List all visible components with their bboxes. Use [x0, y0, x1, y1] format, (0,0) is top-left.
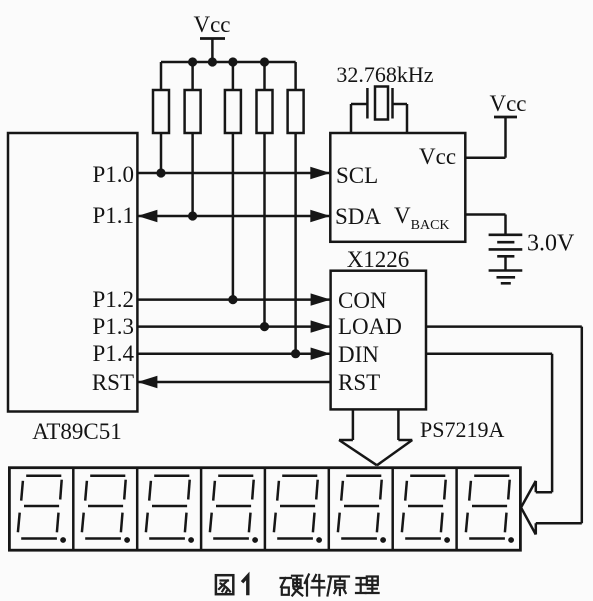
arrow into SDA: [310, 210, 330, 222]
junction dot bus/R2: [188, 57, 197, 66]
arrow into SCL: [310, 167, 330, 179]
svg-text:Vcc: Vcc: [419, 144, 456, 169]
wire R4 to LOAD net: [263, 133, 266, 327]
caption 图1 硬件原理: [216, 575, 379, 596]
resistor R4: [257, 90, 273, 133]
wire P1.2 to CON: [137, 298, 330, 301]
glyph 件: [305, 575, 325, 596]
wire P1.3 to LOAD: [137, 325, 330, 328]
glyph 原: [328, 577, 350, 596]
7-segment digit 2: [82, 476, 130, 543]
svg-text:LOAD: LOAD: [338, 314, 402, 339]
7-segment digit 7: [402, 476, 450, 543]
resistor R5: [288, 90, 304, 133]
svg-text:VBACK: VBACK: [394, 203, 450, 233]
wire P1.0 to SCL: [137, 172, 330, 175]
glyph 图: [216, 575, 233, 594]
arrow (open) into display right edge: [521, 481, 536, 535]
wire R5 to DIN net: [294, 133, 297, 354]
battery BT1 3.0V: [489, 231, 575, 257]
arrow into P1.1: [137, 210, 157, 222]
svg-text:CON: CON: [338, 288, 387, 313]
svg-text:P1.0: P1.0: [92, 162, 134, 187]
svg-text:DIN: DIN: [338, 342, 379, 367]
wire R1 to SCL net: [160, 133, 163, 173]
glyph 1: [243, 576, 248, 594]
arrow into CON: [311, 293, 331, 305]
glyph 理: [356, 577, 379, 594]
resistor R1: [153, 90, 169, 133]
wire RST net: [137, 381, 330, 384]
svg-text:Vcc: Vcc: [489, 91, 526, 116]
IC U3 PS7219A: [331, 271, 505, 442]
svg-text:P1.3: P1.3: [92, 314, 134, 339]
junction dot bus/R3: [228, 57, 237, 66]
ground: [489, 271, 523, 284]
wire battery to ground: [504, 256, 507, 270]
junction dot P1.0/R1: [156, 168, 165, 177]
junction dot bus/R4: [260, 57, 269, 66]
IC U1 AT89C51: [8, 133, 137, 444]
wire VBACK to battery: [465, 215, 505, 235]
wire R3 to CON net: [232, 133, 235, 300]
svg-text:SDA: SDA: [335, 204, 381, 229]
7-segment digit 8: [466, 476, 514, 543]
junction dot CON/R3: [228, 295, 237, 304]
wire DIN to display (right loop): [426, 354, 552, 493]
crystal Y1 32.768kHz: [336, 62, 433, 133]
7-segment digit 5: [274, 476, 322, 543]
junction dot LOAD/R4: [260, 322, 269, 331]
svg-text:PS7219A: PS7219A: [420, 417, 504, 442]
7-segment digit 6: [338, 476, 386, 543]
wire P1.1 to SDA: [137, 215, 330, 218]
arrow into RST (AT89C51): [137, 376, 157, 388]
svg-text:P1.4: P1.4: [92, 341, 134, 366]
power Vcc (top): [193, 12, 230, 62]
arrow into LOAD: [311, 320, 331, 332]
wire LOAD to display (right loop): [426, 327, 582, 535]
resistor R2: [185, 90, 201, 133]
junction dot DIN/R5: [291, 349, 300, 358]
resistor R3: [225, 90, 241, 133]
wire P1.4 to DIN: [137, 352, 330, 355]
glyph 硬: [281, 576, 303, 596]
svg-text:Vcc: Vcc: [193, 12, 230, 37]
arrow into DIN: [311, 348, 331, 360]
display DS1 8-digit 7-segment: [9, 468, 520, 551]
junction dot bus/Vcc: [208, 57, 217, 66]
IC U2 X1226: [330, 133, 465, 272]
svg-text:3.0V: 3.0V: [527, 231, 575, 257]
7-segment digit 1: [18, 476, 66, 543]
7-segment digit 4: [210, 476, 258, 543]
wire Vcc pin to Vcc symbol: [465, 156, 505, 159]
junction dot SDA/R2: [188, 211, 197, 220]
svg-text:32.768kHz: 32.768kHz: [336, 62, 433, 87]
svg-text:RST: RST: [92, 370, 134, 395]
svg-text:SCL: SCL: [336, 163, 378, 188]
arrow (open, block) PS7219A to display: [339, 409, 412, 465]
svg-text:P1.2: P1.2: [92, 287, 134, 312]
power Vcc (right): [489, 91, 526, 158]
svg-text:X1226: X1226: [347, 247, 410, 272]
svg-text:P1.1: P1.1: [92, 203, 134, 228]
svg-text:AT89C51: AT89C51: [32, 419, 121, 444]
svg-text:RST: RST: [338, 370, 380, 395]
7-segment digit 3: [146, 476, 194, 543]
wire R2 to SDA net: [191, 133, 194, 216]
wire Vcc pull-up bus: [161, 62, 296, 90]
